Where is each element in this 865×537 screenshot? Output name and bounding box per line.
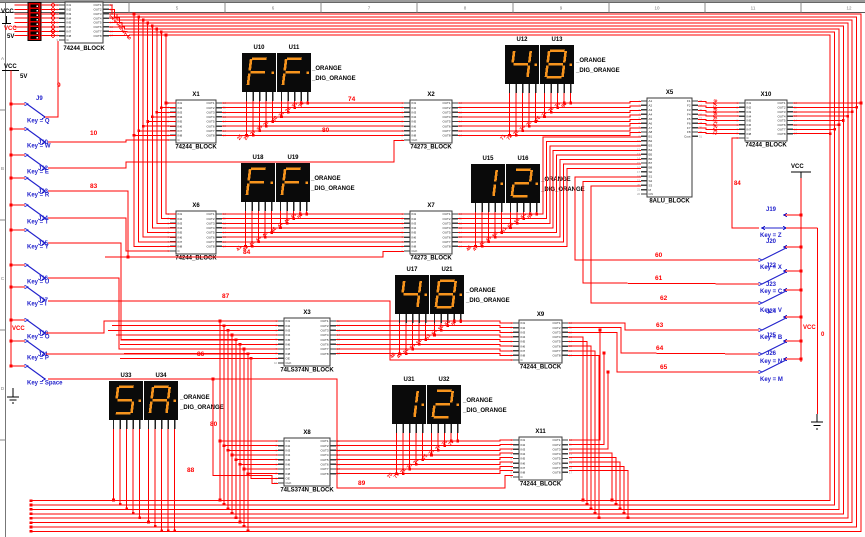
- display U10: [242, 45, 276, 92]
- chip X8: [274, 430, 340, 494]
- svg-text:74244_BLOCK: 74244_BLOCK: [63, 46, 105, 52]
- svg-text:IN8: IN8: [412, 134, 417, 138]
- svg-text:83: 83: [90, 183, 98, 190]
- svg-text:OUT2: OUT2: [206, 106, 214, 110]
- svg-text:IN7: IN7: [521, 466, 526, 470]
- wire display drops U17/U21: [389, 319, 462, 360]
- svg-text:IN2: IN2: [178, 106, 183, 110]
- svg-text:OUT8: OUT8: [442, 134, 450, 138]
- svg-text:S0: S0: [649, 170, 653, 174]
- svg-text:IN1: IN1: [412, 212, 417, 216]
- svg-text:OUT4: OUT4: [442, 115, 450, 119]
- switch J15 (Key = Y): [10, 228, 49, 250]
- svg-text:OUT4: OUT4: [442, 226, 450, 230]
- svg-text:OUT1: OUT1: [320, 319, 328, 323]
- wire display drops U10/U11: [236, 101, 309, 142]
- svg-text:88: 88: [187, 467, 195, 474]
- wire DIP to X0 leads: [41, 3, 59, 38]
- svg-text:Key = U: Key = U: [27, 280, 49, 286]
- svg-text:OUT8: OUT8: [206, 134, 214, 138]
- svg-text:S2: S2: [649, 179, 653, 183]
- chip X6: [168, 203, 227, 262]
- svg-text:A6: A6: [649, 121, 653, 125]
- svg-text:IN4: IN4: [286, 453, 291, 457]
- svg-text:CLK: CLK: [286, 481, 292, 485]
- svg-text:OUT6: OUT6: [206, 124, 214, 128]
- svg-text:IN5: IN5: [521, 340, 526, 344]
- svg-text:OUT2: OUT2: [320, 324, 328, 328]
- display pins U21: [435, 314, 461, 323]
- svg-text:IN7: IN7: [178, 129, 183, 133]
- svg-text:VCC: VCC: [1, 9, 14, 15]
- svg-text:IN8: IN8: [286, 352, 291, 356]
- svg-text:X8: X8: [303, 430, 311, 436]
- svg-text:80: 80: [322, 127, 330, 134]
- wire right second bus: [817, 228, 819, 414]
- svg-text:B4: B4: [649, 148, 653, 152]
- svg-text:CLK: CLK: [412, 138, 418, 142]
- svg-text:OUT7: OUT7: [552, 466, 560, 470]
- svg-text:IN5: IN5: [521, 457, 526, 461]
- svg-text:OUT8: OUT8: [552, 471, 560, 475]
- svg-text:74273_BLOCK: 74273_BLOCK: [410, 145, 452, 151]
- svg-text:Key = P: Key = P: [27, 356, 49, 362]
- svg-text:CLK: CLK: [412, 249, 418, 253]
- svg-text:OUT3: OUT3: [320, 329, 328, 333]
- svg-text:OUT5: OUT5: [206, 120, 214, 124]
- svg-text:OUT3: OUT3: [442, 221, 450, 225]
- svg-text:74: 74: [348, 96, 356, 103]
- svg-text:IN1: IN1: [286, 319, 291, 323]
- svg-text:OUT3: OUT3: [320, 449, 328, 453]
- svg-text:74244_BLOCK: 74244_BLOCK: [175, 256, 217, 262]
- chip X2: [402, 92, 463, 151]
- wire display drops U15/U16: [465, 212, 538, 253]
- wire display drops U31/U32: [386, 433, 459, 480]
- switch J20 (Key = X): [759, 239, 803, 271]
- svg-text:_DIG_ORANGE: _DIG_ORANGE: [179, 405, 224, 411]
- svg-text:X1: X1: [192, 92, 200, 98]
- display U31: [392, 377, 426, 424]
- svg-text:74273_BLOCK: 74273_BLOCK: [410, 256, 452, 262]
- display U11: [277, 45, 311, 92]
- svg-text:S3: S3: [649, 183, 653, 187]
- svg-text:OUT8: OUT8: [206, 245, 214, 249]
- wire bus drops to X1 and X6 inputs: [133, 13, 176, 247]
- svg-text:IN6: IN6: [521, 461, 526, 465]
- svg-text:J22: J22: [766, 263, 777, 269]
- svg-text:J19: J19: [766, 207, 777, 213]
- wire key E to X2 clock: [48, 141, 404, 168]
- svg-text:OUT6: OUT6: [320, 463, 328, 467]
- wire DIP left leads: [15, 5, 29, 36]
- svg-text:OUT8: OUT8: [93, 34, 101, 38]
- svg-text:84: 84: [243, 249, 251, 256]
- svg-text:U13: U13: [551, 37, 563, 43]
- svg-text:VCC: VCC: [791, 164, 804, 170]
- svg-text:CLK: CLK: [286, 361, 292, 365]
- svg-text:OUT5: OUT5: [206, 231, 214, 235]
- svg-text:J24: J24: [766, 309, 777, 315]
- svg-text:_ORANGE: _ORANGE: [311, 66, 342, 72]
- svg-text:Key = E: Key = E: [27, 170, 49, 176]
- svg-text:OUT6: OUT6: [552, 461, 560, 465]
- svg-text:OUT5: OUT5: [442, 231, 450, 235]
- svg-text:IN2: IN2: [412, 217, 417, 221]
- svg-text:8ALU_BLOCK: 8ALU_BLOCK: [649, 199, 690, 205]
- display pins U17: [400, 314, 426, 323]
- wire bus X3 to X9: [336, 321, 513, 355]
- svg-text:OUT4: OUT4: [320, 453, 328, 457]
- wire net 10 key W to X1 enable: [48, 140, 170, 142]
- svg-text:X11: X11: [535, 429, 546, 435]
- wire staircase into X3 and X8 inputs: [104, 320, 278, 532]
- svg-text:OUT4: OUT4: [552, 335, 560, 339]
- svg-text:IN4: IN4: [286, 333, 291, 337]
- svg-text:A3: A3: [649, 108, 653, 112]
- svg-text:IN7: IN7: [412, 240, 417, 244]
- svg-text:OUT8: OUT8: [777, 132, 785, 136]
- svg-text:OUT1: OUT1: [552, 438, 560, 442]
- switch J9 (Key = Q): [10, 96, 50, 125]
- svg-text:IN5: IN5: [412, 120, 417, 124]
- svg-text:IN4: IN4: [412, 226, 417, 230]
- svg-text:IN3: IN3: [521, 447, 526, 451]
- svg-text:OUT6: OUT6: [320, 343, 328, 347]
- wire display drops U12/U13: [499, 93, 572, 142]
- svg-text:A5: A5: [649, 117, 653, 121]
- switch J13 (Key = R): [10, 176, 50, 198]
- label bus wire numbers at X0: [109, 14, 133, 41]
- power VCC top-left: [1, 9, 17, 40]
- power VCC bus right: [800, 178, 802, 362]
- sheet border left: [0, 2, 6, 537]
- svg-text:OUT8: OUT8: [442, 245, 450, 249]
- svg-text:U34: U34: [155, 373, 167, 379]
- svg-text:IN4: IN4: [178, 115, 183, 119]
- svg-text:OUT3: OUT3: [206, 221, 214, 225]
- svg-text:IN5: IN5: [286, 458, 291, 462]
- svg-text:OUT3: OUT3: [442, 110, 450, 114]
- svg-text:S1: S1: [649, 174, 653, 178]
- svg-text:OUT2: OUT2: [552, 326, 560, 330]
- svg-text:10: 10: [654, 6, 660, 11]
- display pins U11: [282, 92, 308, 101]
- sheet border top: [0, 0, 865, 12]
- svg-text:U17: U17: [406, 267, 418, 273]
- svg-text:F8: F8: [687, 130, 691, 134]
- svg-text:B3: B3: [649, 143, 653, 147]
- svg-text:U21: U21: [441, 267, 453, 273]
- svg-text:9: 9: [57, 82, 61, 89]
- svg-text:74244_BLOCK: 74244_BLOCK: [520, 365, 562, 371]
- svg-text:OUT6: OUT6: [442, 124, 450, 128]
- switch J16 (Key = U): [10, 263, 49, 285]
- svg-text:62: 62: [660, 295, 668, 302]
- svg-text:X6: X6: [192, 203, 200, 209]
- svg-text:U10: U10: [253, 45, 265, 51]
- wire bus X1 to X2 and X2 to X5: [222, 101, 641, 135]
- svg-text:A7: A7: [649, 126, 653, 130]
- svg-text:OUT3: OUT3: [552, 330, 560, 334]
- svg-text:5V: 5V: [7, 34, 14, 40]
- svg-text:IN3: IN3: [286, 329, 291, 333]
- svg-text:A1: A1: [649, 99, 653, 103]
- svg-text:A4: A4: [649, 112, 653, 116]
- svg-text:OUT7: OUT7: [442, 240, 450, 244]
- chip X11: [511, 429, 573, 488]
- svg-text:OUT7: OUT7: [552, 349, 560, 353]
- DIP switch S1: [28, 3, 41, 41]
- svg-text:IN7: IN7: [178, 240, 183, 244]
- wire X10 outputs to bus: [793, 102, 862, 135]
- display pins U19: [281, 202, 307, 211]
- svg-text:IN8: IN8: [412, 245, 417, 249]
- svg-text:IN5: IN5: [412, 231, 417, 235]
- svg-text:OUT1: OUT1: [206, 212, 214, 216]
- switch J17 (Key = I): [10, 285, 49, 307]
- svg-text:IN6: IN6: [521, 344, 526, 348]
- switch J21 (Key = P): [10, 339, 49, 361]
- svg-text:U16: U16: [517, 156, 529, 162]
- chip X5: [637, 90, 702, 205]
- svg-text:IN3: IN3: [412, 110, 417, 114]
- svg-text:IN5: IN5: [286, 338, 291, 342]
- svg-text:VCC: VCC: [4, 64, 17, 70]
- svg-text:74244_BLOCK: 74244_BLOCK: [520, 482, 562, 488]
- wire X11 outputs to key nets and bus: [569, 329, 629, 519]
- svg-text:OUT1: OUT1: [552, 321, 560, 325]
- wire net 9 key Q to X0 enable: [45, 41, 58, 117]
- switch JSP (Key = Space): [10, 364, 63, 386]
- switch J24 (Key = B): [759, 309, 803, 341]
- svg-text:U32: U32: [438, 377, 450, 383]
- display U18: [241, 155, 275, 202]
- svg-text:J26: J26: [766, 351, 777, 357]
- display pins U13: [545, 84, 571, 93]
- svg-text:OUT6: OUT6: [552, 344, 560, 348]
- svg-text:OUT7: OUT7: [320, 467, 328, 471]
- display U17: [395, 267, 429, 314]
- chip X1: [168, 92, 227, 151]
- svg-text:U15: U15: [482, 156, 494, 162]
- svg-text:63: 63: [656, 322, 664, 329]
- svg-text:OUT4: OUT4: [206, 115, 214, 119]
- svg-text:Key = O: Key = O: [27, 335, 50, 341]
- svg-text:F7: F7: [687, 126, 691, 130]
- svg-text:80: 80: [210, 421, 218, 428]
- svg-text:U31: U31: [403, 377, 415, 383]
- wire display drops U18/U19: [235, 211, 308, 253]
- power VCC symbol mid-left: [2, 64, 27, 80]
- svg-text:74LS374N_BLOCK: 74LS374N_BLOCK: [280, 488, 334, 494]
- svg-text:CN: CN: [649, 192, 653, 196]
- svg-text:OUT8: OUT8: [320, 472, 328, 476]
- svg-text:IN8: IN8: [286, 472, 291, 476]
- svg-text:64: 64: [656, 345, 664, 352]
- svg-text:B7: B7: [649, 161, 653, 165]
- svg-text:OUT2: OUT2: [552, 443, 560, 447]
- ground left: [7, 388, 19, 403]
- svg-text:IN8: IN8: [178, 245, 183, 249]
- switch J14 (Key = T): [10, 203, 49, 225]
- svg-text:OUT5: OUT5: [320, 338, 328, 342]
- svg-text:OUT1: OUT1: [442, 101, 450, 105]
- svg-text:A8: A8: [649, 130, 653, 134]
- svg-text:_ORANGE: _ORANGE: [575, 58, 606, 64]
- svg-text:IN3: IN3: [521, 330, 526, 334]
- svg-text:OE: OE: [286, 477, 290, 481]
- display pins U15: [476, 203, 502, 212]
- svg-text:F4: F4: [687, 112, 691, 116]
- svg-text:87: 87: [222, 293, 230, 300]
- svg-text:IN8: IN8: [521, 471, 526, 475]
- svg-text:X2: X2: [427, 92, 435, 98]
- svg-text:IN1: IN1: [412, 101, 417, 105]
- svg-text:X3: X3: [303, 310, 311, 316]
- svg-text:IN7: IN7: [286, 467, 291, 471]
- svg-text:Key = I: Key = I: [27, 302, 47, 308]
- svg-text:IN7: IN7: [286, 347, 291, 351]
- svg-text:89: 89: [358, 480, 366, 487]
- svg-text:VCC: VCC: [803, 325, 816, 331]
- svg-text:OUT8: OUT8: [320, 352, 328, 356]
- display pins U33: [114, 420, 140, 429]
- display pins U16: [511, 203, 537, 212]
- svg-text:10: 10: [90, 130, 98, 137]
- chip X3: [274, 310, 340, 374]
- svg-text:IN7: IN7: [412, 129, 417, 133]
- wire X10 enable to key Z: [732, 138, 759, 228]
- svg-text:_ORANGE: _ORANGE: [179, 395, 210, 401]
- display pins U32: [432, 424, 458, 433]
- svg-text:Key = W: Key = W: [27, 144, 51, 150]
- switch J12 (Key = E): [10, 153, 49, 175]
- svg-text:OUT1: OUT1: [320, 439, 328, 443]
- wire net 83 key R to X7 clock: [48, 191, 404, 257]
- svg-text:Key = M: Key = M: [760, 377, 783, 383]
- svg-text:OUT6: OUT6: [206, 235, 214, 239]
- svg-text:B2: B2: [649, 139, 653, 143]
- svg-text:IN8: IN8: [178, 134, 183, 138]
- svg-text:IN8: IN8: [521, 354, 526, 358]
- svg-text:IN6: IN6: [286, 463, 291, 467]
- svg-text:IN2: IN2: [412, 106, 417, 110]
- svg-text:U33: U33: [120, 373, 132, 379]
- svg-text:IN2: IN2: [286, 324, 291, 328]
- svg-text:IN1: IN1: [286, 439, 291, 443]
- svg-text:J23: J23: [766, 282, 777, 288]
- svg-text:11: 11: [751, 6, 756, 11]
- svg-text:IN3: IN3: [412, 221, 417, 225]
- wire key U to X3/X8 staircase: [48, 278, 244, 349]
- svg-text:U11: U11: [289, 45, 300, 51]
- svg-text:IN5: IN5: [178, 231, 183, 235]
- svg-text:IN6: IN6: [412, 235, 417, 239]
- display pins U34: [149, 420, 175, 429]
- svg-text:OUT5: OUT5: [320, 458, 328, 462]
- ground right: [811, 414, 823, 429]
- svg-text:_ORANGE: _ORANGE: [465, 288, 496, 294]
- svg-text:Key = R: Key = R: [27, 193, 50, 199]
- svg-text:B8: B8: [649, 166, 653, 170]
- wire key O to staircase: [46, 321, 220, 333]
- svg-text:74LS374N_BLOCK: 74LS374N_BLOCK: [280, 368, 334, 374]
- display U13: [540, 37, 574, 84]
- svg-text:Key = Space: Key = Space: [27, 381, 63, 387]
- display U34: [144, 373, 178, 420]
- svg-text:OE: OE: [286, 357, 290, 361]
- svg-text:OUT7: OUT7: [206, 240, 214, 244]
- display U19: [276, 155, 310, 202]
- wire key Y to X3/X8 staircase: [48, 243, 236, 340]
- switch J19 (Key = Z): [760, 207, 818, 239]
- power VCC symbol left: [0, 0, 1, 1]
- svg-text:_ORANGE: _ORANGE: [540, 177, 571, 183]
- svg-text:74244_BLOCK: 74244_BLOCK: [175, 145, 217, 151]
- svg-text:OUT6: OUT6: [442, 235, 450, 239]
- display pins U31: [397, 424, 423, 433]
- svg-text:OUT4: OUT4: [320, 333, 328, 337]
- chip X7: [402, 203, 463, 262]
- svg-text:IN5: IN5: [178, 120, 183, 124]
- svg-text:IN2: IN2: [521, 443, 526, 447]
- display U33: [109, 373, 143, 420]
- svg-text:IN2: IN2: [286, 444, 291, 448]
- svg-text:OUT2: OUT2: [442, 217, 450, 221]
- svg-text:IN1: IN1: [178, 101, 183, 105]
- switch J25 (Key = N): [759, 333, 803, 365]
- display U21: [430, 267, 464, 314]
- svg-text:OUT7: OUT7: [442, 129, 450, 133]
- svg-text:A: A: [1, 56, 4, 61]
- switch J10 (Key = W): [10, 127, 51, 149]
- switch J23 (Key = V): [759, 282, 803, 314]
- svg-text:IN4: IN4: [521, 335, 526, 339]
- svg-text:OUT8: OUT8: [552, 354, 560, 358]
- wire bus X8 to X11: [336, 440, 513, 474]
- svg-text:IN4: IN4: [521, 452, 526, 456]
- svg-text:OUT3: OUT3: [206, 110, 214, 114]
- switch J18 (Key = O): [10, 318, 50, 340]
- svg-text:B: B: [1, 166, 4, 171]
- svg-text:_DIG_ORANGE: _DIG_ORANGE: [462, 408, 507, 414]
- svg-text:Key = Y: Key = Y: [27, 245, 49, 251]
- svg-text:IN6: IN6: [286, 343, 291, 347]
- svg-text:IN6: IN6: [412, 124, 417, 128]
- svg-text:65: 65: [660, 364, 668, 371]
- svg-text:_ORANGE: _ORANGE: [462, 398, 493, 404]
- svg-text:84: 84: [734, 181, 741, 187]
- svg-text:Key = T: Key = T: [27, 220, 49, 226]
- svg-text:IN3: IN3: [178, 110, 183, 114]
- wire key T to X6 enable: [48, 218, 170, 251]
- svg-text:B5: B5: [649, 152, 653, 156]
- wire display drops U33/U34: [112, 429, 176, 532]
- svg-text:F6: F6: [687, 121, 691, 125]
- chip X9: [511, 312, 573, 371]
- svg-text:F5: F5: [687, 117, 691, 121]
- svg-text:U19: U19: [287, 155, 299, 161]
- svg-text:IN3: IN3: [286, 449, 291, 453]
- svg-text:X10: X10: [761, 92, 772, 98]
- svg-text:OUT3: OUT3: [552, 447, 560, 451]
- svg-text:60: 60: [655, 252, 663, 259]
- svg-text:_ORANGE: _ORANGE: [310, 176, 341, 182]
- svg-text:IN4: IN4: [178, 226, 183, 230]
- svg-text:IN3: IN3: [178, 221, 183, 225]
- svg-text:B6: B6: [649, 157, 653, 161]
